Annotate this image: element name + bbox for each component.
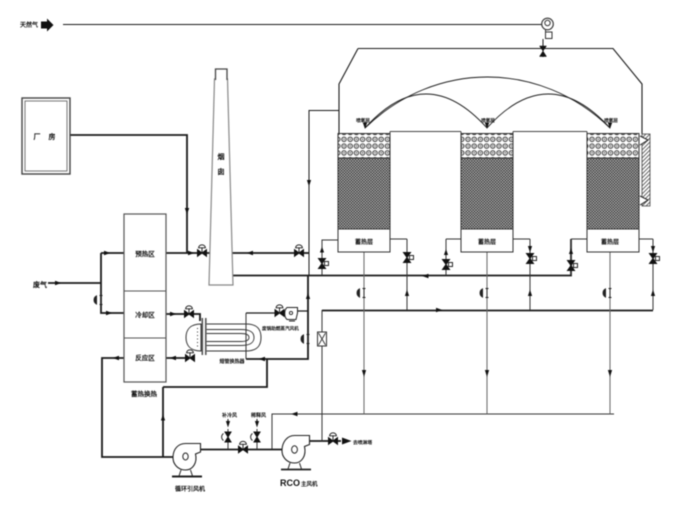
svg-text:囱: 囱: [218, 167, 225, 176]
svg-text:烟: 烟: [218, 152, 225, 161]
svg-text:预热区: 预热区: [135, 249, 155, 258]
svg-text:补冷风: 补冷风: [221, 412, 237, 419]
svg-text:稀释风: 稀释风: [251, 412, 266, 419]
svg-text:循环引风机: 循环引风机: [175, 485, 205, 493]
svg-text:主风机: 主风机: [301, 480, 318, 488]
svg-text:蓄热层: 蓄热层: [355, 238, 373, 246]
svg-text:天然气: 天然气: [20, 21, 38, 29]
svg-text:废气: 废气: [33, 280, 47, 289]
svg-text:冷却区: 冷却区: [135, 310, 155, 319]
svg-text:蓄热层: 蓄热层: [601, 238, 619, 246]
svg-text:蓄热层: 蓄热层: [478, 238, 496, 246]
svg-text:RCO: RCO: [280, 478, 300, 488]
svg-text:翅管换热器: 翅管换热器: [218, 358, 245, 365]
svg-text:厂 房: 厂 房: [34, 132, 59, 141]
svg-text:反应区: 反应区: [135, 353, 155, 362]
svg-text:废锅助燃蒸汽风机: 废锅助燃蒸汽风机: [262, 325, 299, 332]
svg-text:蓄热换热: 蓄热换热: [131, 389, 158, 398]
svg-text:去喷淋塔: 去喷淋塔: [353, 439, 372, 446]
